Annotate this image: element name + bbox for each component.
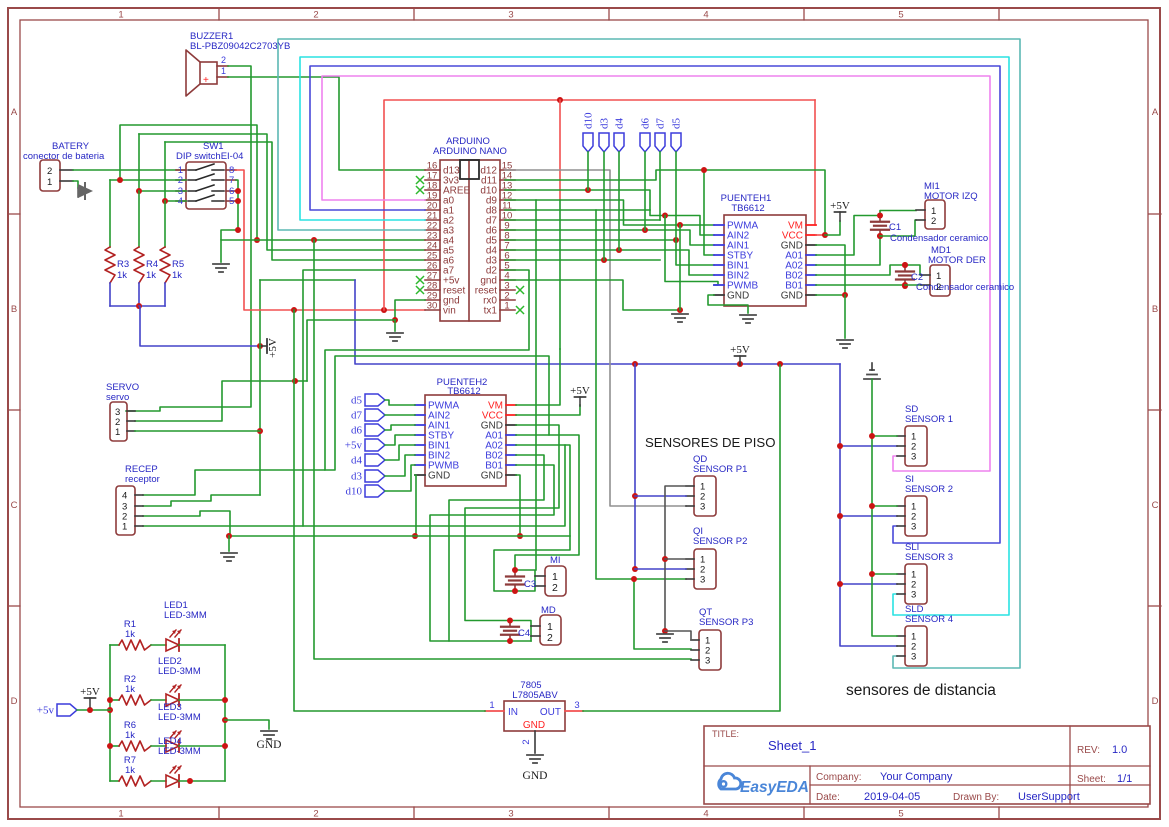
svg-text:+5v: +5v [345,440,363,452]
svg-text:+5V: +5V [830,200,850,212]
svg-text:C1: C1 [889,222,901,233]
svg-text:Company:: Company: [816,772,862,783]
svg-text:L7805ABV: L7805ABV [512,690,558,701]
svg-text:1.0: 1.0 [1112,744,1127,756]
svg-text:C: C [11,500,18,511]
svg-text:R5: R5 [172,259,184,270]
svg-text:SENSOR 1: SENSOR 1 [905,414,953,425]
svg-text:+5V: +5V [570,385,590,397]
svg-text:1: 1 [115,427,120,438]
svg-text:1k: 1k [125,765,135,776]
svg-text:d7: d7 [351,410,363,422]
svg-text:d4: d4 [351,455,363,467]
svg-text:d6: d6 [351,425,363,437]
svg-text:LED-3MM: LED-3MM [164,610,207,621]
svg-text:B: B [1152,304,1158,315]
svg-text:3: 3 [508,10,513,21]
svg-text:3: 3 [911,652,916,663]
svg-text:3: 3 [911,452,916,463]
svg-text:2: 2 [521,739,532,744]
svg-text:SENSOR 3: SENSOR 3 [905,552,953,563]
svg-text:3: 3 [705,656,710,667]
svg-text:DIP switchEI-04: DIP switchEI-04 [176,151,243,162]
svg-text:SENSOR 4: SENSOR 4 [905,614,953,625]
svg-text:LED-3MM: LED-3MM [158,712,201,723]
svg-text:UserSupport: UserSupport [1018,791,1080,803]
svg-text:d10: d10 [583,112,595,129]
svg-text:2: 2 [313,10,318,21]
svg-text:d5: d5 [351,395,363,407]
svg-text:ARDUINO NANO: ARDUINO NANO [433,146,507,157]
svg-text:1: 1 [504,301,509,312]
svg-text:5: 5 [898,809,903,820]
svg-text:1: 1 [936,271,941,282]
svg-text:2019-04-05: 2019-04-05 [864,791,920,803]
svg-text:SENSOR 2: SENSOR 2 [905,484,953,495]
svg-text:1k: 1k [146,270,156,281]
svg-text:GND: GND [781,291,803,302]
svg-text:TB6612: TB6612 [731,203,764,214]
svg-text:Date:: Date: [816,792,840,803]
svg-text:REV:: REV: [1077,745,1100,756]
svg-text:3: 3 [911,522,916,533]
svg-text:GND: GND [523,720,545,731]
svg-text:SENSOR P1: SENSOR P1 [693,464,747,475]
svg-text:4: 4 [703,10,708,21]
svg-text:+5v: +5v [37,705,55,717]
svg-text:3: 3 [700,502,705,513]
svg-text:2: 2 [313,809,318,820]
svg-text:1: 1 [122,522,127,533]
svg-text:1: 1 [118,10,123,21]
svg-text:2: 2 [936,282,941,293]
svg-text:3: 3 [508,809,513,820]
svg-text:tx1: tx1 [484,306,498,317]
svg-text:SENSOR P3: SENSOR P3 [699,617,753,628]
svg-text:D: D [1152,696,1159,707]
svg-text:d7: d7 [655,118,667,130]
svg-text:4: 4 [122,491,127,502]
svg-text:5: 5 [229,196,234,207]
svg-text:7: 7 [229,175,234,186]
svg-text:1k: 1k [172,270,182,281]
svg-text:SENSORES DE PISO: SENSORES DE PISO [645,435,775,450]
svg-text:IN: IN [508,707,518,718]
svg-text:2: 2 [547,632,553,644]
svg-text:4: 4 [703,809,708,820]
svg-text:2: 2 [178,175,183,186]
svg-text:2: 2 [931,216,936,227]
svg-text:+5V: +5V [267,338,279,358]
svg-text:d10: d10 [346,486,363,498]
svg-text:2: 2 [47,166,52,177]
svg-text:d3: d3 [599,118,611,130]
svg-text:2: 2 [552,582,558,594]
svg-text:receptor: receptor [125,474,160,485]
svg-text:d3: d3 [351,471,363,483]
svg-text:Your Company: Your Company [880,771,953,783]
svg-text:1/1: 1/1 [1117,773,1132,785]
svg-text:OUT: OUT [540,707,561,718]
svg-text:GND: GND [727,291,749,302]
svg-text:R3: R3 [117,259,129,270]
svg-text:A: A [1152,107,1159,118]
svg-text:1k: 1k [125,629,135,640]
svg-text:+: + [203,75,209,86]
svg-text:LED-3MM: LED-3MM [158,666,201,677]
svg-text:2: 2 [221,55,226,65]
svg-text:MD: MD [541,605,556,616]
svg-text:BL-PBZ09042C2703YB: BL-PBZ09042C2703YB [190,41,290,52]
svg-text:GND: GND [257,739,282,751]
svg-text:TITLE:: TITLE: [712,729,739,739]
svg-text:B: B [11,304,17,315]
svg-text:C4: C4 [518,628,530,639]
svg-text:Condensador ceramico: Condensador ceramico [890,233,988,244]
svg-text:4: 4 [178,196,183,207]
svg-text:sensores de distancia: sensores de distancia [846,682,996,699]
svg-text:30: 30 [427,301,438,312]
svg-text:3: 3 [700,575,705,586]
svg-text:1: 1 [47,177,52,188]
svg-text:A: A [11,107,18,118]
svg-text:d5: d5 [671,118,683,130]
svg-text:TB6612: TB6612 [447,386,480,397]
svg-text:GND: GND [481,471,503,482]
svg-text:1: 1 [221,66,226,76]
svg-text:1k: 1k [125,730,135,741]
svg-text:C: C [1152,500,1159,511]
svg-text:Sheet_1: Sheet_1 [768,738,816,753]
svg-text:3: 3 [574,700,579,711]
svg-text:C3: C3 [524,579,536,590]
svg-text:Condensador ceramico: Condensador ceramico [916,282,1014,293]
svg-text:d4: d4 [614,118,626,130]
svg-text:MOTOR IZQ: MOTOR IZQ [924,191,978,202]
svg-text:Drawn By:: Drawn By: [953,792,999,803]
svg-text:1: 1 [118,809,123,820]
svg-text:+5V: +5V [80,686,100,698]
svg-text:GND: GND [428,471,450,482]
svg-text:1k: 1k [117,270,127,281]
svg-text:EasyEDA: EasyEDA [740,779,809,796]
svg-text:servo: servo [106,392,129,403]
svg-text:+5V: +5V [730,344,750,356]
svg-text:Sheet:: Sheet: [1077,774,1106,785]
svg-text:d6: d6 [640,118,652,130]
svg-text:D: D [11,696,18,707]
svg-text:GND: GND [523,770,548,782]
svg-text:1k: 1k [125,684,135,695]
svg-text:3: 3 [911,590,916,601]
svg-text:conector de bateria: conector de bateria [23,151,105,162]
svg-text:MI: MI [550,555,561,566]
svg-text:LED-3MM: LED-3MM [158,746,201,757]
svg-text:vin: vin [443,306,456,317]
svg-text:SENSOR P2: SENSOR P2 [693,536,747,547]
svg-text:R4: R4 [146,259,158,270]
svg-text:1: 1 [489,700,494,711]
svg-text:MOTOR DER: MOTOR DER [928,255,986,266]
svg-text:5: 5 [898,10,903,21]
